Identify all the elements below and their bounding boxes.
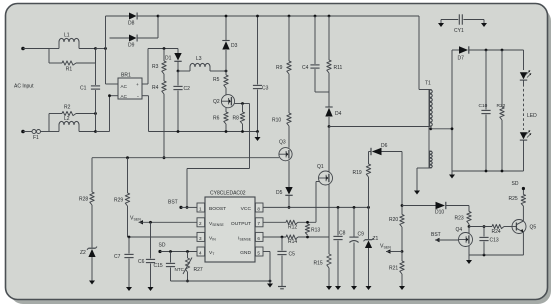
ground arrow GND pin [267,281,273,288]
wire R1 up to rail [95,49,97,64]
resistor R24 [469,224,512,235]
node AC input top terminal [21,47,25,51]
wire AC bottom rail to D9 column [96,96,110,132]
resistor R6 [213,112,228,124]
svg-text:6: 6 [257,236,260,241]
resistor R8 [233,104,245,125]
svg-text:AC: AC [121,84,128,89]
svg-text:D7: D7 [458,56,465,62]
wire D6 to aux node [401,152,403,215]
node SD terminal right [522,187,525,190]
wire snubber bottom [315,91,329,93]
wire F1 to branch [48,114,50,132]
label AC Input [14,84,34,90]
label BST right [431,232,441,238]
svg-text:R29: R29 [114,198,123,204]
diode D8 [106,13,159,27]
svg-text:L2: L2 [64,116,70,122]
node bottom rail at C1 column [94,130,97,133]
svg-text:SD: SD [512,181,519,187]
ground arrow R21 [399,284,405,290]
wire GND pin stub [263,252,270,282]
resistor R1 [49,61,96,73]
svg-text:C2: C2 [184,86,191,92]
ground bar C5 [278,287,286,289]
svg-text:R28: R28 [79,197,88,203]
svg-text:AC Input: AC Input [14,84,34,90]
node AC input bottom terminal [21,130,25,134]
node GND pin column junction [269,280,272,283]
svg-text:R6: R6 [213,116,220,122]
resistor R28 [79,158,94,205]
label SD left [159,243,166,249]
node C7 top junction [128,236,131,239]
svg-text:R11: R11 [334,65,343,71]
diode D3 [222,16,237,50]
svg-text:3: 3 [199,236,202,241]
svg-text:R19: R19 [353,170,362,176]
wire T1 aux to ground [417,168,429,189]
capacitor C13 [479,227,498,256]
label BST left [168,200,178,206]
wire AC top rail to BR1 column [96,48,106,50]
ground arrow output return [449,171,455,179]
node L1R1 junction [94,47,97,50]
wire BR1 AC2 pin [110,95,119,97]
wire R10 to Q3 [288,126,290,148]
svg-text:R2: R2 [64,105,71,111]
svg-text:D1: D1 [165,56,172,62]
svg-text:C3: C3 [262,86,269,92]
transistor Q4 [456,227,473,247]
wire R6 to ground rail [225,124,227,132]
ground arrow Z1 [366,284,372,290]
svg-text:T1: T1 [425,81,431,87]
node D8 column junction [104,47,107,50]
bridge rectifier BR1 [118,73,142,101]
wire Q5 collector [522,206,524,221]
svg-text:D8: D8 [128,21,135,27]
node boost pin junction [186,206,189,209]
svg-text:Q3: Q3 [279,140,286,146]
svg-text:5: 5 [257,250,260,255]
node R8 ground junction [241,130,244,133]
svg-text:OUTPUT: OUTPUT [231,221,251,227]
node R27 top junction [186,250,189,253]
wire D3 to junction [225,50,227,71]
svg-text:R21: R21 [389,266,398,272]
node Z1 VCC junction [367,206,370,209]
wire R28 to Z2 [91,205,93,248]
node SD terminal [158,250,161,253]
svg-text:R9: R9 [276,65,283,71]
wire D1 to L3 [177,61,179,71]
svg-text:R23: R23 [455,216,464,222]
transistor Q5 [512,220,536,234]
ground arrow C8 [335,284,341,290]
thermistor R27 [175,252,203,275]
wire Q4 source [468,246,470,255]
node C3 ground junction [256,130,259,133]
wire BR1 AC1 pin [106,83,119,85]
node R2 L2 C1 junction [94,112,97,115]
wire D8 anode column [105,16,107,84]
svg-text:R20: R20 [389,217,398,223]
svg-text:NTC: NTC [175,267,185,272]
node R27 ground junction [186,280,189,283]
node R9 rail junction [288,15,291,18]
ground arrow R15 [326,284,332,290]
svg-text:Z1: Z1 [373,236,379,242]
svg-text:BR1: BR1 [121,73,131,79]
wire gate line [92,157,279,159]
svg-text:D9: D9 [128,43,135,49]
wire Q2 source down [225,108,227,112]
wire Q3 source to D5 [288,161,290,187]
ground arrow main return [255,132,261,142]
svg-text:4: 4 [199,250,202,255]
svg-text:BST: BST [168,200,178,206]
svg-text:R13: R13 [311,228,320,234]
svg-text:BST: BST [431,232,441,238]
svg-text:C5: C5 [289,252,296,258]
svg-text:L1: L1 [64,33,70,39]
node R11 rail junction [328,15,331,18]
node D9 cathode rail junction [157,15,160,18]
svg-text:Q2: Q2 [213,99,220,105]
wire BST to pin1 [181,206,197,208]
svg-text:C15: C15 [154,263,163,269]
node D3 rail junction [225,15,228,18]
svg-text:+: + [136,83,139,88]
capacitor C2 [173,71,190,132]
IC pin 8 VCC [241,203,263,212]
wire gate riser Q1 [315,182,317,223]
wire SD to VT pin [160,251,197,253]
wire R23 to Q4 node [468,224,470,227]
node C9 VCC junction [353,206,356,209]
svg-text:8: 8 [257,206,260,211]
svg-text:SD: SD [159,243,166,249]
wire Q5 emitter [522,232,524,255]
svg-text:C13: C13 [490,238,499,244]
capacitor CY1 [438,14,487,34]
svg-text:GND: GND [240,250,251,256]
wire R27 to ground line [187,272,189,281]
transformer T1 primary [429,90,432,169]
node drain junction [328,125,331,128]
ground arrow C6 [148,285,154,291]
svg-text:2: 2 [199,221,202,226]
ground arrow Z2 [89,278,95,285]
capacitor C5 [277,237,295,286]
svg-text:C6: C6 [138,259,145,265]
label VSEN right [380,244,391,250]
capacitor C9 [349,207,364,284]
diode D10 [435,202,446,216]
node R4 gate line junction [163,156,166,159]
resistor R23 [455,212,472,225]
wire D5 to VCC rail [288,195,290,207]
svg-text:D6: D6 [381,143,388,149]
wire rectified top rail [158,15,419,17]
diode D5 [276,187,293,196]
node C5 junction [281,236,284,239]
IC pin 3 VIN [197,232,216,241]
capacitor C7 [114,237,134,285]
svg-text:Q1: Q1 [317,164,324,170]
wire T1 tap to output column [431,128,452,130]
wire R9 to R10 [288,74,290,113]
label VSEN left [130,216,141,222]
wire BR1 minus output [142,96,258,132]
wire D9 cathode to top rail [157,16,159,38]
wire C1 column to bottom rail [95,114,97,132]
diode D9 [110,35,159,49]
resistor R5 [213,71,228,88]
svg-text:VCC: VCC [241,206,252,212]
zener Z1 [364,207,379,284]
resistor R21 [389,252,404,285]
svg-text:R8: R8 [233,116,240,122]
node Q4 drain junction [468,225,471,228]
resistor R29 [114,158,130,206]
resistor R2 [49,105,96,116]
svg-text:D4: D4 [335,111,342,117]
svg-text:C7: C7 [114,254,121,260]
svg-text:Q5: Q5 [530,225,537,231]
node BR1 AC2 junction [108,94,111,97]
svg-text:R27: R27 [194,267,203,273]
svg-text:BOOST: BOOST [209,206,226,212]
diode D1 [165,49,182,62]
net arrow VSEN left [139,220,198,224]
wire BR1 plus output [142,49,178,85]
IC pin 2 VSENSE [197,218,224,227]
resistor R25 [509,189,526,207]
zener Z2 [80,247,97,257]
transformer T1 aux winding [429,151,432,168]
ground arrow Q4 [466,255,472,264]
svg-text:R25: R25 [509,196,518,202]
capacitor C4 [302,16,320,92]
wire Q2 output [235,103,250,105]
capacitor C6 [138,222,155,285]
wire L1R1 left branch [49,49,59,64]
resistor R13 [305,224,320,235]
IC pin 6 ISENSE [238,232,263,241]
LED LED2 [520,130,532,140]
node C10 top junction [485,49,488,52]
wire boost feedback step [187,104,250,208]
node C10 bottom junction [485,170,488,173]
node C13 top junction [483,225,486,228]
svg-text:F1: F1 [33,135,39,141]
ground arrow T1 aux [414,189,420,195]
capacitor C10 [479,50,491,171]
wire LED return line [452,170,524,172]
diode D4 [325,92,341,117]
LED LED1 [520,70,532,80]
node R8 top junction [241,102,244,105]
node C13 bottom junction [483,254,486,257]
wire Vin line [128,236,198,238]
svg-text:C10: C10 [479,103,488,109]
wire ISENSE line [263,236,286,238]
wire R4 to gate line [163,94,165,158]
IC pin 1 BOOST [197,203,226,212]
svg-text:7: 7 [257,221,260,226]
wire VCC rail [263,206,369,208]
wire LED dashed middle [524,81,538,131]
svg-text:D5: D5 [276,190,283,196]
node C6 top junction [149,221,152,224]
node D1 C2 L3 junction [177,70,180,73]
transistor Q3 [279,140,292,161]
resistor R3 [152,49,166,75]
node R13 top junction [306,221,309,224]
IC pin 7 OUTPUT [231,218,263,227]
node R22 bottom junction [501,170,504,173]
node VSEN right junction [401,250,404,253]
node R29 gate junction [126,156,129,159]
IC pin 4 VT [197,247,214,256]
node L3 D3 R5 junction [225,70,228,73]
resistor R10 [272,113,291,126]
svg-text:C9: C9 [358,232,365,238]
label T1 [425,81,431,87]
svg-text:D10: D10 [435,210,444,216]
wire D10 to R23 [446,206,469,212]
svg-text:D3: D3 [231,43,238,49]
svg-text:C4: C4 [302,65,309,71]
resistor R14 [286,235,329,245]
svg-text:R12: R12 [288,225,297,231]
inductor L1 [59,33,79,49]
capacitor C15 [154,252,176,282]
wire LED string bottom [523,141,525,172]
resistor R11 [327,16,343,92]
diode D6 [369,143,403,155]
capacitor C8 [333,207,345,284]
node T1 tap [429,127,432,130]
diode D7 [452,46,524,61]
wire R5 to Q2 [225,88,227,95]
wire L1 to junction [79,48,96,50]
svg-text:L3: L3 [196,56,202,62]
wire Q1 gate [316,181,319,183]
wire AC top from terminal [23,48,49,50]
node C15 top junction [169,250,172,253]
node R22 top junction [501,49,504,52]
svg-text:R1: R1 [66,67,73,73]
wire D4 to drain line [328,117,330,127]
svg-text:R3: R3 [152,64,159,70]
transistor Q1 [317,164,333,185]
wire drain to Q1 [328,127,330,172]
node C3 rail junction [256,15,259,18]
ground arrow C7 [126,285,132,291]
resistor R15 [314,237,332,284]
node aux supply junction [401,204,404,207]
capacitor C3 [253,16,269,132]
svg-text:R5: R5 [213,77,220,83]
wire Q1 source [328,185,330,238]
svg-text:CY8CLEDAC02: CY8CLEDAC02 [210,191,246,197]
net arrow VSEN right [386,249,402,253]
node R6 ground junction [225,130,228,133]
svg-text:R10: R10 [272,118,281,124]
resistor R19 [353,152,371,208]
svg-text:LED: LED [527,113,537,119]
svg-text:R22: R22 [497,103,506,109]
node output tap junction [451,127,454,130]
node R3 top junction [163,47,166,50]
transistor Q2 [213,95,235,108]
node D5 VCC junction [288,206,291,209]
svg-text:R15: R15 [314,261,323,267]
wire R29 to Vin line [127,206,129,237]
ground arrow C9 [351,284,357,290]
capacitor C1 [80,49,100,114]
wire output column [451,50,453,171]
inductor L3 [178,56,226,71]
svg-text:AC: AC [121,94,128,99]
resistor R4 [152,74,166,94]
wire Q4 bottom line [469,254,524,256]
svg-text:-: - [137,94,139,100]
wire rail to T1 top [419,16,429,90]
svg-text:Q4: Q4 [456,227,463,233]
node C8 VCC junction [337,206,340,209]
fuse F1 [23,130,49,142]
svg-text:C8: C8 [339,231,346,237]
wire ground line VT [171,280,271,282]
node C2 ground junction [177,130,180,133]
net arrow BST right [435,238,459,242]
label SD right [512,181,519,187]
inductor L2 [49,116,96,132]
svg-text:Z2: Z2 [80,250,86,256]
resistor R22 [497,50,506,171]
node BST terminal [179,206,182,209]
wire OUTPUT stub [263,221,286,223]
IC pin 5 GND [240,247,263,256]
svg-text:R4: R4 [152,85,159,91]
resistor R9 [276,16,291,74]
svg-text:C1: C1 [80,86,87,92]
wire LED string top [523,50,525,70]
svg-text:R24: R24 [492,229,501,235]
svg-text:1: 1 [199,206,202,211]
wire R8 to ground rail [242,124,244,132]
IC U1 CY8CLEDAC02 body [205,191,255,263]
wire drain line to T1 [329,126,429,128]
node C4 rail junction [314,15,317,18]
resistor R20 [389,215,404,252]
svg-text:R14: R14 [288,239,297,245]
svg-text:CY1: CY1 [454,28,464,34]
node R13 bottom junction [306,236,309,239]
wire Z2 to ground [91,257,93,278]
resistor R12 [286,220,316,230]
wire aux node to D10 [402,205,436,207]
